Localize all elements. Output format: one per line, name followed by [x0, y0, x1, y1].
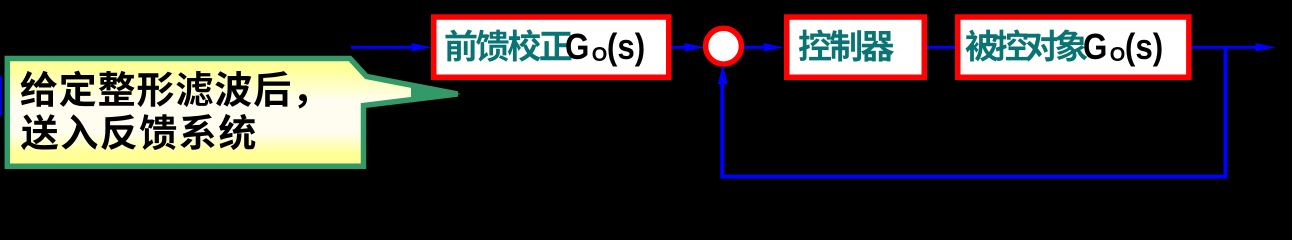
- wire: plant output line: [1192, 46, 1256, 49]
- summing junction circle: [706, 28, 742, 64]
- wire: summing junction to controller: [744, 46, 766, 49]
- svg-text:O: O: [592, 44, 608, 66]
- callout tail tip (solid green): [411, 83, 461, 103]
- label Go(s) of plant block: [1083, 27, 1163, 68]
- arrowhead into feedforward block: [412, 43, 433, 51]
- svg-text:G: G: [1083, 27, 1107, 68]
- svg-text:G: G: [565, 27, 589, 68]
- block diagram: feedforward-corrected feedback control system: [0, 0, 1292, 182]
- svg-text:(s): (s): [607, 27, 645, 68]
- callout text line 2: 送入反馈系统: [21, 114, 255, 150]
- arrowhead output: [1256, 43, 1277, 51]
- wire: feedback path (down, across bottom, up): [722, 47, 1225, 176]
- arrowhead feedback into summing junction: [718, 65, 728, 85]
- arrowhead into summing junction: [685, 43, 706, 51]
- block: feedforward correction Go(s): [434, 17, 669, 77]
- block: controller: [787, 17, 925, 77]
- wire: left-edge blue sliver: [0, 76, 2, 116]
- callout text line 1: 给定整形滤波后，: [21, 71, 308, 109]
- label 控制器 (teal): [799, 30, 894, 62]
- callout bubble with tail: [7, 59, 457, 167]
- svg-text:O: O: [1110, 44, 1126, 66]
- label Go(s) of feedforward block: [565, 27, 645, 68]
- label 前馈校正 (teal): [446, 29, 572, 62]
- svg-text:(s): (s): [1125, 27, 1163, 68]
- wire: input line into feedforward block: [351, 46, 413, 49]
- wire: controller to plant: [927, 46, 955, 49]
- arrowhead into controller: [764, 43, 785, 51]
- label 被控对象 (teal): [966, 30, 1088, 62]
- block: controlled plant Go(s): [958, 17, 1189, 77]
- wire: feedforward block to summing junction: [672, 46, 688, 49]
